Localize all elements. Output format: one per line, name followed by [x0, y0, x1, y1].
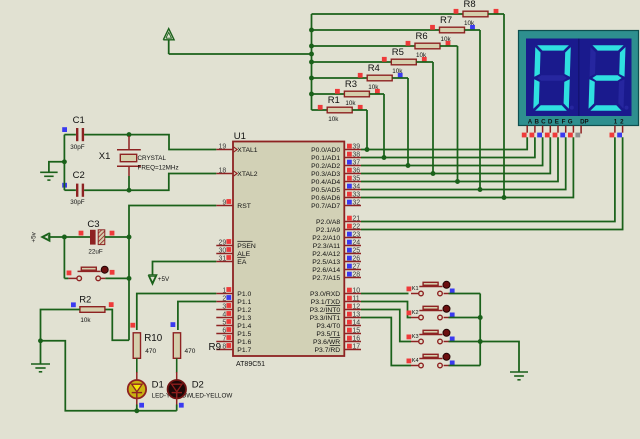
R2 right marker — [109, 302, 114, 307]
D1 bottom marker — [139, 403, 144, 408]
U1 pin 18 clock chevron — [234, 171, 238, 176]
U1 pin 28 state marker — [347, 272, 352, 277]
svg-text:B: B — [534, 119, 539, 126]
node C2/X1/XTAL2 — [127, 188, 132, 193]
LED D2 cathode lead — [176, 393, 178, 405]
wire C2 right to crystal junction and XTAL2 — [84, 174, 216, 191]
wire D2 to bottom rail — [176, 405, 178, 411]
svg-text:P3.5/T1: P3.5/T1 — [316, 331, 340, 338]
svg-text:P3.7/RD: P3.7/RD — [315, 347, 341, 354]
svg-text:+5v: +5v — [31, 231, 38, 242]
wire P0.3 to display segment pin D — [361, 137, 550, 173]
resistor R5 body — [391, 59, 416, 65]
resistor R4 body — [367, 75, 392, 81]
LED D2 (dark, off) — [168, 380, 186, 398]
svg-text:AT89C51: AT89C51 — [236, 361, 265, 368]
display pin A stub — [526, 126, 528, 133]
U1 pin 16 state marker — [347, 336, 352, 341]
svg-text:P1.7: P1.7 — [237, 347, 251, 354]
node R2/ground/LED return — [38, 338, 43, 343]
U1 pin 32 state marker — [347, 200, 352, 205]
U1 pin 4 state marker — [226, 311, 231, 316]
push button K4 cap — [419, 358, 442, 360]
U1 pin 8 P1.7 stub — [216, 349, 233, 351]
R1 right terminal marker — [358, 105, 363, 110]
display pin E state marker — [553, 133, 558, 138]
svg-text:P3.4/T0: P3.4/T0 — [316, 323, 340, 330]
power +5V arrow (EA, points down) — [148, 275, 156, 284]
svg-text:K2: K2 — [412, 310, 419, 316]
svg-text:E: E — [555, 119, 559, 126]
svg-text:34: 34 — [352, 184, 360, 191]
wire K2 to right bus — [449, 317, 481, 319]
wire K4 to right bus — [449, 365, 481, 367]
svg-text:DP: DP — [580, 119, 589, 126]
svg-text:P0.0/AD0: P0.0/AD0 — [311, 147, 340, 154]
U1 pin 3 state marker — [226, 303, 231, 308]
wire reset button to bus — [105, 277, 129, 279]
node bus-VCC feed — [309, 52, 314, 57]
svg-text:+5V: +5V — [158, 276, 170, 283]
svg-text:15: 15 — [352, 328, 360, 335]
wire P0.6 to display segment pin G — [361, 137, 573, 197]
node left vertical to ground — [62, 159, 67, 164]
wire bus to R4 left — [312, 77, 368, 79]
U1 pin 26 P2.5/A13 stub — [344, 261, 361, 263]
svg-text:R8: R8 — [464, 0, 476, 10]
push button RESET right contact — [96, 276, 101, 281]
resistor R2 body — [80, 307, 105, 313]
wire RST to reset bus — [129, 206, 216, 341]
svg-text:P2.7/A15: P2.7/A15 — [312, 275, 340, 282]
wire bus to R7 left — [312, 29, 440, 31]
ground (crystal circuit) — [40, 171, 58, 173]
svg-text:13: 13 — [352, 312, 360, 319]
push button K1 right contact — [438, 291, 443, 296]
svg-text:22: 22 — [352, 224, 360, 231]
display pin 2 stub — [622, 126, 624, 133]
svg-text:36: 36 — [352, 168, 360, 175]
wire P0.5 to display segment pin F — [361, 137, 566, 189]
power +5v arrow (C3, points left) — [42, 233, 50, 241]
svg-text:C1: C1 — [73, 115, 85, 126]
U1 pin 13 P3.3/INT1 stub — [344, 317, 361, 319]
wire R7 down to P0 row — [479, 30, 481, 190]
svg-text:470: 470 — [145, 348, 156, 355]
node P0.4 / R pullup junction — [455, 179, 460, 184]
svg-text:6: 6 — [222, 327, 226, 334]
push button K3 cap — [419, 334, 442, 336]
U1 pin 2 P1.1 stub — [216, 301, 233, 303]
node P0.0 / R pullup junction — [365, 147, 370, 152]
R6 right terminal marker — [446, 41, 451, 46]
node reset button/bus — [127, 276, 132, 281]
svg-text:30pF: 30pF — [70, 144, 85, 151]
U1 pin 38 state marker — [347, 152, 352, 157]
capacitor C3 left marker — [79, 231, 84, 236]
K3 left stub — [411, 341, 419, 343]
wire R10 to D1 — [136, 358, 138, 373]
node bus-R5 — [309, 60, 314, 65]
display pin 2 state marker — [617, 133, 622, 138]
U1 pin 34 state marker — [347, 184, 352, 189]
U1 pin 37 state marker — [347, 160, 352, 165]
push button K3 right contact — [438, 339, 443, 344]
push button K3 left contact — [419, 339, 424, 344]
svg-text:30: 30 — [219, 247, 227, 254]
resistor R8 body — [463, 11, 488, 17]
7-segment display inner panel — [526, 39, 632, 117]
wire R8 down to P0 row — [503, 14, 505, 198]
R3 left terminal marker — [335, 89, 340, 94]
display pin C state marker — [537, 133, 542, 138]
U1 pin 32 P0.7/AD7 stub — [344, 205, 361, 207]
U1 pin 34 P0.5/AD5 stub — [344, 189, 361, 191]
svg-text:2: 2 — [222, 295, 226, 302]
7-segment display cell divider — [578, 39, 580, 117]
U1 pin 14 state marker — [347, 320, 352, 325]
display pin C stub — [542, 126, 544, 133]
node bus-K3 — [478, 339, 483, 344]
svg-text:1: 1 — [222, 287, 226, 294]
svg-text:11: 11 — [352, 296, 359, 303]
resistor R3 body — [344, 91, 369, 97]
U1 pin 5 state marker — [226, 319, 231, 324]
svg-text:R2: R2 — [79, 295, 91, 306]
wire P1.1 to R9 — [178, 302, 216, 331]
capacitor C2 plates — [76, 184, 78, 197]
wire P3.3 to K4 — [361, 318, 411, 366]
node bus-R7 — [309, 28, 314, 33]
U1 pin 13 state marker — [347, 312, 352, 317]
node P0.1 / R pullup junction — [382, 155, 387, 160]
capacitor C1 plates — [76, 128, 78, 141]
7-segment display outer frame — [519, 31, 639, 126]
wire bus to R1 left — [312, 109, 328, 111]
node P0.5 / R pullup junction — [478, 187, 483, 192]
wire EA to +5V arrow — [153, 262, 217, 276]
U1 pin 14 P3.4/T0 stub — [344, 325, 361, 327]
svg-text:P2.0/A8: P2.0/A8 — [316, 219, 340, 226]
display pin D state marker — [545, 133, 550, 138]
svg-text:10k: 10k — [328, 116, 339, 123]
U1 pin 5 P1.4 stub — [216, 325, 233, 327]
svg-text:C3: C3 — [87, 219, 99, 230]
reset button right marker — [110, 270, 115, 275]
svg-text:22uF: 22uF — [88, 249, 103, 256]
wire R5 down to P0 row — [432, 62, 434, 174]
display digit 2 showing 2 — [588, 45, 625, 111]
U1 pin 17 P3.7/RD stub — [344, 349, 361, 351]
wire bus to R8 left — [312, 13, 464, 15]
K3 right marker — [450, 337, 455, 342]
capacitor C1 left marker — [62, 127, 67, 132]
resistor R7 body — [440, 27, 465, 33]
wire P2.1 to display digit2 pin — [361, 137, 623, 229]
svg-text:28: 28 — [352, 272, 360, 279]
K4 right stub — [444, 365, 449, 367]
svg-text:4: 4 — [222, 311, 226, 318]
svg-text:P0.4/AD4: P0.4/AD4 — [311, 179, 340, 186]
U1 pin 11 state marker — [347, 296, 352, 301]
wire R8 right lead — [488, 13, 504, 15]
display pin D stub — [549, 126, 551, 133]
D2 bottom marker — [179, 403, 184, 408]
svg-text:29: 29 — [219, 239, 227, 246]
R10 top marker — [130, 323, 135, 328]
wire +5v junction down to reset button — [63, 237, 65, 278]
svg-text:D2: D2 — [192, 380, 204, 391]
push button K2 right contact — [438, 315, 443, 320]
U1 pin 11 P3.1/TXD stub — [344, 301, 361, 303]
wire VCC feed to ladder bus — [169, 53, 312, 55]
svg-text:5: 5 — [222, 319, 226, 326]
U1 pin 28 P2.7/A15 stub — [344, 277, 361, 279]
svg-text:P0.7/AD7: P0.7/AD7 — [311, 203, 340, 210]
svg-text:10k: 10k — [345, 100, 356, 107]
crystal X1 body — [120, 154, 136, 161]
svg-text:PSEN: PSEN — [237, 243, 256, 250]
U1 pin 12 P3.2/INT0 stub — [344, 309, 361, 311]
svg-text:R1: R1 — [328, 95, 340, 106]
crystal X1 bottom stem — [128, 166, 130, 176]
node bus-R4 — [309, 76, 314, 81]
svg-text:26: 26 — [352, 256, 360, 263]
U1 pin 6 state marker — [226, 327, 231, 332]
node P0.3 / R pullup junction — [431, 171, 436, 176]
wire R3 right lead — [369, 93, 384, 95]
svg-text:18: 18 — [219, 167, 227, 174]
R9 top marker — [171, 322, 176, 327]
display pin 1 stub — [614, 126, 616, 133]
svg-text:U1: U1 — [234, 131, 246, 142]
U1 pin 31 state marker — [226, 255, 231, 260]
U1 pin 23 P2.2/A10 stub — [344, 237, 361, 239]
U1 pin 2 state marker — [226, 295, 231, 300]
U1 pin 39 state marker — [347, 144, 352, 149]
LED D1 anode lead — [136, 372, 138, 381]
U1 pin 24 state marker — [347, 240, 352, 245]
wire R1 right lead — [352, 109, 367, 111]
U1 pin 22 P2.1/A9 stub — [344, 229, 361, 231]
node +5v/C3/button — [62, 235, 67, 240]
U1 pin 36 state marker — [347, 168, 352, 173]
U1 pin 35 P0.4/AD4 stub — [344, 181, 361, 183]
svg-text:P0.6/AD6: P0.6/AD6 — [311, 195, 340, 202]
svg-text:K1: K1 — [412, 286, 419, 292]
wire ladder common bus vertical — [311, 14, 313, 110]
svg-text:21: 21 — [352, 216, 360, 223]
wire K1 to right bus — [449, 293, 481, 295]
LED D2 anode lead — [176, 372, 178, 381]
resistor R9 body (vertical) — [173, 333, 180, 359]
R7 right terminal marker — [470, 25, 475, 30]
U1 pin 30 state marker — [226, 247, 231, 252]
svg-text:37: 37 — [352, 160, 360, 167]
wire P3.0 to K1 — [361, 293, 409, 295]
svg-text:P1.3: P1.3 — [237, 315, 251, 322]
K3 left marker — [407, 335, 412, 340]
ground (buttons) — [510, 371, 528, 373]
U1 pin 23 state marker — [347, 232, 352, 237]
U1 pin 26 state marker — [347, 256, 352, 261]
U1 pin 27 state marker — [347, 264, 352, 269]
wire R6 down to P0 row — [457, 46, 459, 182]
display pin E stub — [557, 126, 559, 133]
capacitor C2 left marker — [62, 183, 67, 188]
svg-text:LED-YELLOW: LED-YELLOW — [192, 392, 233, 399]
K1 left marker — [407, 287, 412, 292]
K2 left marker — [407, 311, 412, 316]
R2 left marker — [71, 302, 76, 307]
wire to reset button left contact — [64, 277, 68, 279]
K2 left stub — [411, 317, 419, 319]
svg-text:R5: R5 — [392, 47, 404, 58]
svg-text:9: 9 — [222, 199, 226, 206]
svg-text:31: 31 — [219, 255, 227, 262]
K2 right stub — [444, 317, 449, 319]
wire VCC arrow stem — [168, 40, 170, 54]
U1 pin 9 state marker — [226, 199, 231, 204]
svg-text:17: 17 — [352, 344, 360, 351]
K1 right marker — [450, 289, 455, 294]
node C1/X1/XTAL1 — [127, 132, 132, 137]
U1 pin 12 state marker — [347, 304, 352, 309]
U1 pin 15 state marker — [347, 328, 352, 333]
svg-text:XTAL2: XTAL2 — [237, 171, 257, 178]
ground (reset circuit) — [31, 363, 50, 365]
wire P1.0 to R10 — [137, 294, 217, 331]
svg-text:10k: 10k — [80, 317, 91, 324]
display pin F state marker — [560, 133, 565, 138]
U1 pin 9 RST stub — [216, 205, 233, 207]
svg-text:K4: K4 — [412, 358, 419, 364]
U1 pin 21 P2.0/A8 stub — [344, 221, 361, 223]
power +5V arrow (top, points up) — [163, 29, 174, 40]
reset button right stub — [101, 277, 105, 279]
wire C1 right to crystal junction and XTAL1 — [84, 135, 216, 150]
svg-text:P2.3/A11: P2.3/A11 — [313, 243, 341, 250]
display pin A state marker — [522, 133, 527, 138]
node bus-R6 — [309, 44, 314, 49]
U1 pin 21 state marker — [347, 216, 352, 221]
svg-text:24: 24 — [352, 240, 360, 247]
node P0.2 / R pullup junction — [406, 163, 411, 168]
crystal X1 top stem — [128, 136, 130, 150]
wire R5 right lead — [416, 61, 433, 63]
svg-text:XTAL1: XTAL1 — [237, 147, 257, 154]
U1 pin 24 P2.3/A11 stub — [344, 245, 361, 247]
svg-text:P1.1: P1.1 — [237, 299, 251, 306]
U1 pin 6 P1.5 stub — [216, 333, 233, 335]
svg-text:2: 2 — [620, 119, 624, 126]
push button K4 right contact — [438, 363, 443, 368]
U1 pin 30 ALE stub — [216, 253, 233, 255]
resistor R6 body — [415, 43, 440, 49]
svg-text:P2.2/A10: P2.2/A10 — [312, 235, 340, 242]
svg-text:P2.4/A12: P2.4/A12 — [312, 251, 340, 258]
U1 pin 8 state marker — [226, 343, 231, 348]
U1 pin 10 state marker — [347, 288, 352, 293]
display digit 2 decimal point (unlit) — [625, 106, 629, 110]
capacitor C3 left plate (solid) — [90, 230, 96, 245]
R6 left terminal marker — [406, 41, 411, 46]
U1 pin 36 P0.3/AD3 stub — [344, 173, 361, 175]
U1 pin 16 P3.6/WR stub — [344, 341, 361, 343]
push button RESET cap — [78, 270, 101, 272]
svg-text:A: A — [528, 119, 533, 126]
U1 pin 15 P3.5/T1 stub — [344, 333, 361, 335]
U1 pin 18 XTAL2 stub — [216, 173, 233, 175]
svg-text:P1.6: P1.6 — [237, 339, 251, 346]
display pin G stub — [572, 126, 574, 133]
svg-text:RST: RST — [237, 203, 251, 210]
R1 left terminal marker — [318, 105, 323, 110]
svg-text:P3.6/WR: P3.6/WR — [313, 339, 340, 346]
R8 left terminal marker — [454, 9, 459, 14]
svg-text:3: 3 — [222, 303, 226, 310]
R5 right terminal marker — [422, 57, 427, 62]
R3 right terminal marker — [375, 89, 380, 94]
op: none; IC U1 AT89C51 body — [233, 142, 344, 357]
svg-text:10: 10 — [352, 288, 360, 295]
wire C1-C2 left vertical — [63, 135, 65, 191]
svg-text:K3: K3 — [412, 334, 419, 340]
wire to ground (crystal) — [49, 162, 65, 173]
svg-text:27: 27 — [352, 264, 360, 271]
U1 pin 1 state marker — [226, 287, 231, 292]
display pin B state marker — [530, 133, 535, 138]
U1 pin 27 P2.6/A14 stub — [344, 269, 361, 271]
wire P3.2 to K3 — [361, 310, 411, 342]
wire P0.4 to display segment pin E — [361, 137, 558, 181]
node C3/reset bus — [127, 235, 132, 240]
wire reset bus bottom to R2 — [105, 310, 129, 341]
svg-text:23: 23 — [352, 232, 360, 239]
wire P0.2 to display segment pin C — [361, 137, 543, 165]
wire D1 to bottom rail — [136, 405, 138, 411]
svg-text:FREQ=12MHz: FREQ=12MHz — [138, 165, 179, 172]
svg-text:P2.5/A13: P2.5/A13 — [312, 259, 340, 266]
wire bus to ground (buttons) — [480, 342, 519, 373]
svg-text:P1.0: P1.0 — [237, 291, 251, 298]
U1 pin 38 P0.1/AD1 stub — [344, 157, 361, 159]
U1 pin 25 P2.4/A12 stub — [344, 253, 361, 255]
display pin F stub — [565, 126, 567, 133]
wire K3 to right bus — [449, 341, 481, 343]
push button K4 actuator dot — [443, 353, 450, 360]
push button K1 actuator dot — [443, 281, 450, 288]
U1 pin 37 P0.2/AD2 stub — [344, 165, 361, 167]
svg-text:X1: X1 — [99, 151, 111, 162]
wire P0.0 to display segment pin A — [361, 137, 527, 149]
wire P2.0 to display digit1 pin — [361, 137, 615, 221]
U1 pin 29 PSEN stub — [216, 245, 233, 247]
svg-text:R3: R3 — [345, 79, 357, 90]
svg-text:P3.1/TXD: P3.1/TXD — [311, 299, 341, 306]
svg-text:P2.6/A14: P2.6/A14 — [312, 267, 340, 274]
svg-text:P0.1/AD1: P0.1/AD1 — [311, 155, 340, 162]
wire ground stem (R2) — [40, 341, 42, 364]
wire R4 down to P0 row — [407, 78, 409, 166]
svg-text:P3.0/RXD: P3.0/RXD — [310, 291, 340, 298]
display pin G state marker — [568, 133, 573, 138]
svg-text:ALE: ALE — [237, 251, 250, 258]
svg-text:P3.2/INT0: P3.2/INT0 — [310, 307, 341, 314]
wire bus to R3 left — [312, 93, 345, 95]
svg-text:P0.5/AD5: P0.5/AD5 — [311, 187, 340, 194]
svg-text:CRYSTAL: CRYSTAL — [138, 155, 167, 162]
